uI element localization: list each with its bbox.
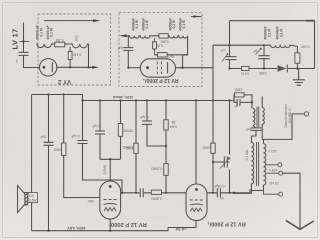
node grid rail x136 [135, 192, 137, 194]
coil L1 tuning [36, 44, 88, 48]
capacitor branch x82 [78, 101, 123, 193]
node cap b bottom [263, 67, 265, 69]
node top rail joint [228, 44, 230, 46]
resistor 0,3M [295, 53, 300, 63]
label voltage selector vertical [284, 103, 292, 128]
node resistor bottom [296, 67, 298, 69]
tube RV12P2000 stage2 envelope [140, 59, 175, 77]
tube VY2 anode bar [51, 62, 53, 72]
wire bottom heater bus [32, 221, 196, 231]
label block c [131, 18, 139, 31]
wire stage2 output [176, 67, 214, 69]
resistor damping in coil line [55, 42, 65, 47]
wire winding bottoms [234, 185, 264, 193]
resistor screen small [153, 42, 157, 49]
capacitor trimmer tone [218, 155, 232, 170]
node x233 [233, 192, 235, 194]
tube2 heater [190, 208, 202, 212]
resistor 1M parallel [234, 95, 252, 109]
node trimmer left [212, 161, 214, 163]
tube stage2 grid dashes [157, 62, 161, 75]
resistor branch x65 50k [64, 95, 100, 198]
tap 110V [267, 164, 278, 166]
label 40000pF 0,1M block b [46, 25, 54, 40]
node feed b [63, 93, 65, 95]
node bus 147 [146, 99, 148, 101]
node screen join [109, 158, 111, 160]
resistor branch x136 1M [135, 101, 137, 193]
speaker magnet bar [25, 193, 28, 206]
choke winding right [262, 97, 264, 140]
label block h [276, 26, 284, 39]
wire diode rail [230, 21, 315, 69]
node bus 213 [212, 99, 214, 101]
capacitor trimmer b [259, 45, 270, 68]
node heater bus x110 [109, 230, 111, 232]
wire R2 leads [69, 47, 71, 68]
tube1 heater [104, 208, 116, 212]
node heater bus x48 [47, 230, 49, 232]
node RC out [251, 101, 253, 103]
node x166 mid [165, 145, 167, 147]
wire top rail right [230, 21, 315, 46]
node grid rail x122 [121, 192, 123, 194]
tube1 anode dot [109, 185, 112, 188]
node bus 196 [195, 99, 197, 101]
resistor branch x120 5000 [120, 101, 122, 160]
tube2 cathode [190, 204, 204, 205]
diode rectifier [278, 65, 287, 72]
wire left feed rail [32, 95, 83, 101]
node antenna tap [20, 41, 30, 43]
value label x166 upper [170, 120, 178, 128]
capacitor 100p parallel [234, 99, 252, 106]
wire mains feed [262, 114, 304, 139]
wire detector rail [213, 45, 264, 100]
node bump line joint [263, 44, 265, 46]
choke winding left [253, 108, 255, 125]
node grid cap junction [127, 67, 129, 69]
ground symbol [293, 69, 305, 86]
wire input arrow stage 2 [122, 35, 129, 37]
label block f [178, 18, 186, 31]
node diode rail left [228, 67, 230, 69]
coil bumps detector [264, 45, 297, 47]
trimmer b arrow [256, 48, 262, 55]
tube1 cathode [104, 204, 117, 205]
mains plug arrow [286, 220, 314, 229]
resistor series 0,1M [242, 66, 250, 70]
wire cathode down [183, 55, 188, 68]
capacitor branch x147 [142, 101, 166, 147]
capacitor coupling t2 [217, 188, 220, 197]
capacitor 5nF coupling [251, 125, 262, 142]
terminal thick end [306, 20, 315, 22]
node bus 82 [81, 99, 83, 101]
transformer core [257, 142, 259, 186]
tube2 grid dashes [190, 199, 203, 201]
wire HT bus [83, 100, 235, 102]
choke core [257, 107, 259, 128]
node feed a [47, 93, 49, 95]
node cathode junction [182, 67, 184, 69]
wire mains arrow feed [283, 173, 300, 224]
tube stage2 cathode dot [146, 66, 149, 69]
transformer primary winding [251, 143, 253, 186]
resistor branch x166 lower [164, 164, 168, 176]
label block d [141, 18, 149, 31]
resistor branch x213 [212, 101, 214, 193]
speaker label box [28, 193, 37, 203]
wire screen join [100, 159, 121, 181]
capacitor branch x48 [44, 95, 54, 231]
label block g [264, 26, 272, 39]
resistor series in coil [159, 34, 168, 38]
wire coil end to cathode network [155, 36, 188, 55]
resistor branch x166 upper [165, 101, 167, 164]
trimmer tone arrow [220, 158, 230, 169]
wire top arrow line stage1 [44, 20, 96, 22]
wire tube1 heater stem [109, 219, 111, 231]
capacitor trimmer a [226, 45, 237, 68]
tube VY2 envelope [40, 59, 57, 76]
coil L2 IF [128, 36, 187, 38]
tube 2 output RV12P2000 envelope [186, 184, 207, 221]
wire stage2 input [128, 67, 140, 69]
node bus 229 [228, 99, 230, 101]
label 40000pF 0,1M block a [36, 25, 44, 40]
tube stage2 anode bar [167, 62, 169, 74]
node grid rail x166 [165, 192, 167, 194]
resistor grid leak R2 [68, 52, 72, 60]
node bus 120 [119, 99, 121, 101]
wire speaker rail [31, 95, 33, 231]
dashed box stage 1 [38, 14, 111, 85]
node junction R2 [69, 66, 71, 68]
wire branch x229 lower [229, 101, 231, 193]
capacitor branch x100 [95, 101, 105, 160]
node bus 166 [165, 99, 167, 101]
wire coil end down [88, 44, 90, 67]
resistor series grid [151, 190, 161, 194]
capacitor antenna series [19, 52, 29, 58]
wire anode rail tube2 right [207, 189, 250, 193]
node bus 136 [135, 99, 137, 101]
transformer secondary winding [264, 139, 266, 185]
tube 1 output RV12P2000 envelope [100, 181, 121, 219]
tube VY2 cathode dot [43, 66, 46, 69]
dashed box stage 2 [119, 13, 202, 87]
tap 150V [267, 193, 279, 195]
node bus 100 [99, 99, 101, 101]
label block e [168, 18, 176, 31]
wire VY2 output [57, 66, 95, 68]
speaker cone [18, 186, 26, 213]
terminal mains top [304, 112, 308, 116]
tube1 grid dashes [104, 199, 117, 201]
resistor cathode 5k [158, 53, 168, 57]
capacitor coupling t1 [140, 188, 143, 197]
wire antenna input rail [24, 23, 40, 68]
trimmer a arrow [222, 54, 228, 62]
tap 125V [267, 172, 279, 174]
tube2 anode dot [195, 188, 198, 191]
wire tap3 stub [264, 185, 268, 194]
node x229 grid [228, 192, 230, 194]
node x213 grid [212, 192, 214, 194]
wire grid rail tubes [121, 192, 186, 194]
capacitor grid stage2 [123, 36, 133, 68]
wire top corner arrow out [191, 16, 202, 18]
node junction coil end [87, 66, 89, 68]
wire branch x196 anode t2 [195, 101, 197, 185]
